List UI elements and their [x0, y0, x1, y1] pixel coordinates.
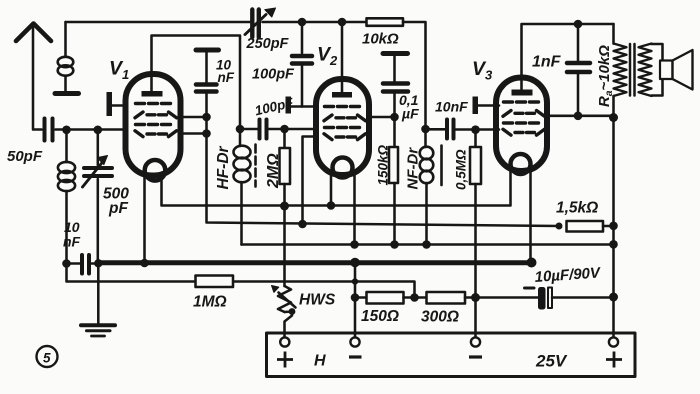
svg-text:H: H	[314, 353, 326, 370]
tube V3 anode plate	[512, 90, 533, 96]
svg-text:10nF: 10nF	[435, 99, 468, 115]
tube V2 screen wire right	[369, 116, 395, 119]
node dot coil bottom	[62, 259, 71, 268]
tube V1 cathode	[145, 160, 166, 181]
battery terminal + right	[609, 337, 618, 346]
node dot 2M to cathode wire	[280, 202, 289, 211]
node dot V2 fil left	[327, 201, 336, 210]
loudspeaker	[660, 50, 693, 90]
tube V2 anode plate	[332, 92, 352, 98]
tube V1 anode plate	[142, 91, 163, 97]
choke NF-Dr iron core	[440, 146, 443, 186]
tube V1 grid rows	[135, 104, 177, 137]
node dot V1 fil left on bus	[140, 259, 149, 268]
svg-text:1nF: 1nF	[532, 54, 562, 71]
svg-text:300Ω: 300Ω	[421, 309, 459, 326]
node dot heater wire right end	[609, 240, 618, 249]
svg-text:nF: nF	[63, 234, 81, 250]
tube V2 lower grid wire down	[303, 137, 317, 225]
capacitor C 10nF anode bypass	[196, 50, 219, 117]
svg-text:Ra~10kΩ: Ra~10kΩ	[596, 45, 615, 107]
potentiometer HWS	[272, 286, 296, 340]
junction dots V1 right	[202, 113, 211, 122]
ground bus (thick)	[98, 260, 531, 265]
node dot 100pF tap	[298, 18, 307, 27]
coil L1 antenna primary	[58, 22, 74, 91]
node dot 0.5M lead crossing	[471, 293, 480, 302]
svg-text:0,5MΩ: 0,5MΩ	[454, 149, 469, 190]
tube V3 grid cap terminal	[473, 97, 500, 115]
svg-text:HWS: HWS	[299, 292, 336, 309]
capacitor C 10nF antenna ground	[67, 255, 99, 274]
tube V2 cathode	[333, 158, 353, 178]
tube V1 filament lead right / heater wire	[162, 169, 511, 206]
svg-text:1MΩ: 1MΩ	[193, 294, 227, 311]
capacitor C 10nF grid coupling V3	[426, 120, 500, 139]
node dot V2 anode	[338, 18, 347, 27]
wire grid V1 input node	[56, 128, 127, 131]
capacitor C 1nF	[567, 24, 590, 116]
ground lead	[97, 264, 100, 324]
node dot A	[236, 125, 245, 134]
tube V3 anode lead to output	[522, 24, 614, 90]
capacitor C 100pF grid coupling V2	[240, 120, 316, 139]
node dot 1nF bottom	[574, 112, 583, 121]
node dot bus right end / V3 fil	[527, 258, 537, 268]
choke NF-Dr	[420, 129, 434, 245]
node dot 150/300 junction	[410, 293, 419, 302]
capacitor C 50pF	[45, 119, 53, 141]
svg-text:250pF: 250pF	[246, 36, 290, 52]
node dot V2 screen	[390, 113, 399, 122]
battery box 25V	[267, 333, 636, 377]
node dot 1nF top	[574, 20, 583, 29]
wire top bus right to node B	[403, 22, 426, 129]
svg-text:150Ω: 150Ω	[361, 308, 399, 325]
svg-text:nF: nF	[218, 70, 235, 85]
svg-text:100pF: 100pF	[252, 67, 295, 83]
coil L2 antenna secondary	[58, 130, 75, 264]
tube V3 cathode	[511, 154, 531, 174]
tube V1 envelope	[126, 74, 181, 176]
node dot transformer bottom	[609, 113, 618, 122]
choke HF-Dr	[234, 129, 251, 245]
choke HF-Dr core (dashed)	[254, 145, 257, 187]
resistor R 150	[367, 292, 404, 304]
variable capacitor C 500pF	[83, 130, 113, 264]
tube V2 grid rows	[324, 107, 366, 140]
node dot electrolytic to rail	[609, 293, 618, 302]
node dot V2 grid	[280, 125, 289, 134]
node dot 1.5k left	[556, 223, 563, 230]
resistor R 2M grid leak	[280, 129, 291, 286]
wire top bus middle	[263, 21, 367, 24]
svg-text:5: 5	[43, 351, 51, 366]
resistor R 10k anode load	[367, 18, 404, 26]
tube V2 anode lead	[341, 22, 344, 92]
node dot battery minus tap on bus	[350, 258, 360, 268]
resistor R 300	[427, 292, 466, 304]
wire V1 screen down to heater net	[207, 117, 560, 226]
node dot 150 left	[351, 293, 360, 302]
svg-text:25V: 25V	[535, 352, 568, 371]
right supply rail	[612, 118, 615, 340]
heater wire lower	[242, 243, 614, 246]
tube V2 filament leads	[331, 173, 355, 245]
plus sign left	[277, 352, 293, 368]
wire top bus start	[66, 21, 251, 24]
node dot B	[421, 125, 430, 134]
heater dropper wire	[355, 296, 367, 299]
output transformer primary	[614, 24, 627, 118]
minus sign anode	[469, 355, 482, 358]
battery terminal - heater	[350, 337, 359, 346]
node dot V2 fil right	[350, 240, 359, 249]
wire 300 to electrolytic	[465, 296, 538, 299]
svg-text:µF: µF	[401, 106, 419, 122]
tube V3 grid rows	[503, 102, 545, 135]
svg-text:pF: pF	[108, 200, 128, 217]
svg-text:10kΩ: 10kΩ	[362, 31, 399, 48]
tube V1 anode lead up and over to node A	[152, 36, 241, 130]
svg-text:50pF: 50pF	[7, 148, 43, 165]
tube V3 envelope	[496, 78, 547, 172]
tube V1 grid cap terminal	[107, 92, 127, 116]
capacitor C 100pF	[292, 22, 312, 107]
resistor R 1M	[196, 276, 234, 288]
plus sign right	[606, 352, 622, 368]
svg-text:HF-Dr: HF-Dr	[215, 145, 232, 189]
battery terminal + left	[280, 337, 289, 346]
resistor R 1.5k	[567, 221, 614, 232]
ground symbol	[81, 325, 115, 336]
chassis bar under L1	[55, 91, 79, 96]
tube V2 grid cap terminal	[286, 97, 317, 114]
wire grid-return net	[67, 264, 415, 298]
node dot 500pF tap	[94, 126, 103, 135]
electrolytic capacitor C 10uF/90V	[525, 287, 614, 310]
node dot bus left	[94, 259, 102, 267]
antenna	[16, 24, 51, 130]
capacitor C 0.1uF	[383, 54, 408, 118]
svg-text:NF-Dr: NF-Dr	[405, 147, 422, 190]
wire between droppers	[404, 296, 427, 299]
tube V3 anode return wire	[544, 115, 614, 118]
battery minus lead	[354, 263, 357, 340]
svg-text:150kΩ: 150kΩ	[376, 144, 391, 185]
node dot 1.5k right	[609, 222, 618, 231]
resistor R 0.5M grid leak V3	[470, 130, 481, 339]
tube V3 filament lead right	[529, 169, 532, 263]
node dot NF-Dr bottom	[422, 240, 431, 249]
battery terminal - anode	[471, 337, 480, 346]
tube V1 screen wires to right	[181, 117, 207, 134]
resistor R 150k	[389, 117, 398, 245]
node dot V3 grid	[471, 125, 480, 134]
node dot HWS bottom	[289, 308, 296, 315]
minus sign heater	[349, 355, 362, 358]
variable capacitor C 250pF feedback	[245, 8, 276, 37]
svg-text:1,5kΩ: 1,5kΩ	[556, 200, 598, 217]
node dot antenna/coil	[62, 126, 71, 135]
node dot on screen net	[298, 220, 307, 229]
figure number circle 5	[37, 346, 58, 367]
tube V2 envelope	[316, 79, 369, 175]
tube V1 filament lead left	[143, 176, 146, 263]
node dot 150k bottom	[390, 240, 399, 249]
node dot on grid-return at battery tap	[352, 278, 358, 284]
output transformer secondary	[639, 44, 663, 97]
svg-text:2MΩ: 2MΩ	[265, 153, 282, 189]
output transformer core	[630, 44, 635, 96]
